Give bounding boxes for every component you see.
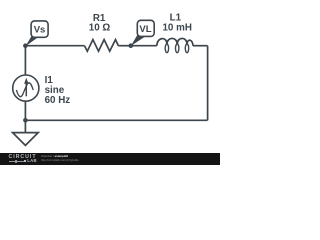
svg-text:60 Hz: 60 Hz [45, 95, 71, 106]
flag Vs tail [25, 35, 38, 47]
node dot VL [129, 43, 134, 48]
svg-text:10 Ω: 10 Ω [89, 23, 111, 34]
ground symbol [13, 133, 39, 146]
source sine wave [16, 83, 33, 97]
svg-text:Vs: Vs [34, 24, 46, 35]
wire source bottom lead [24, 101, 26, 120]
svg-text:10 mH: 10 mH [162, 23, 191, 34]
current source I1 circle [13, 75, 39, 101]
wire resistor to node VL [118, 45, 130, 47]
wire source top lead [24, 46, 26, 75]
flag VL tail [131, 34, 145, 47]
wire ground stub [24, 120, 26, 132]
wire bottom rail [25, 119, 207, 121]
wire node VL to inductor [131, 45, 157, 47]
node dot Vs [23, 43, 28, 48]
watermark bar [0, 153, 220, 165]
CircuitLab logo [9, 155, 37, 160]
source arrow shaft [25, 83, 27, 96]
resistor R1 [85, 40, 119, 52]
wire top-left horizontal [25, 45, 84, 47]
watermark text line 1 [41, 155, 68, 158]
inductor L1 [157, 38, 193, 52]
source arrowhead [24, 78, 28, 84]
wire right vertical [207, 46, 209, 121]
svg-text:VL: VL [139, 24, 151, 35]
node dot ground junction [23, 118, 28, 123]
flag VL box [137, 20, 154, 36]
flag Vs box [31, 21, 48, 37]
watermark text line 2 [41, 159, 79, 162]
wire inductor to top-right corner [193, 45, 208, 47]
